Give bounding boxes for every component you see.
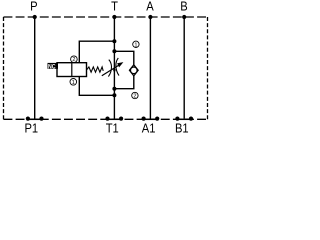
pilot valve divider — [71, 63, 73, 77]
node junction T / check bottom — [112, 87, 116, 91]
bottom port A1 solid segment + junctions — [142, 117, 160, 121]
svg-text:P: P — [30, 0, 37, 14]
wire pilot drain (pilot valve port 1 down and over to T line) — [79, 76, 114, 95]
wire B line — [183, 17, 185, 119]
svg-text:1: 1 — [72, 80, 75, 86]
svg-text:2: 2 — [133, 94, 136, 100]
wire check valve branch loop — [114, 51, 133, 88]
svg-text:A: A — [146, 0, 154, 14]
node B top junction — [182, 15, 186, 19]
bottom port P1 solid segment + junctions — [26, 117, 44, 121]
solenoid (black box with white arrow) — [48, 63, 59, 70]
pilot valve body — [57, 63, 87, 77]
check port 1 label circle — [133, 41, 139, 48]
bottom port T1 solid segment + junctions — [105, 117, 123, 121]
bottom port B1 solid segment + junctions — [175, 117, 193, 121]
check valve (diamond with ball) — [129, 65, 138, 76]
svg-text:A1: A1 — [142, 121, 156, 135]
pilot port 1 label circle — [70, 79, 77, 86]
svg-text:1: 1 — [134, 42, 137, 48]
node A top junction — [148, 15, 152, 19]
wire T line — [113, 17, 115, 119]
adjustment arrow (diagonal) — [102, 65, 120, 76]
svg-text:B: B — [180, 0, 187, 14]
wire P line — [34, 17, 36, 119]
relief valve main element: seat arcs — [108, 60, 111, 77]
node junction T / check top — [112, 49, 116, 53]
svg-text:T: T — [111, 0, 118, 14]
svg-text:B1: B1 — [175, 121, 189, 135]
pilot port 2 label circle — [71, 56, 78, 63]
wire pilot supply loop (pilot valve port 2 up and over to T line) — [79, 41, 114, 63]
svg-text:T1: T1 — [106, 121, 119, 135]
svg-text:2: 2 — [72, 57, 75, 63]
relief valve flow arrowhead (down) — [113, 69, 116, 73]
node junction T / pilot drain — [112, 93, 116, 97]
check port 2 label circle — [132, 92, 138, 99]
node P top junction — [33, 15, 37, 19]
spring — [87, 67, 103, 72]
svg-text:P1: P1 — [24, 121, 38, 135]
node T top junction — [112, 15, 116, 19]
svg-text:NC: NC — [48, 63, 56, 70]
manifold envelope (dashed border) — [4, 17, 208, 119]
wire A line — [149, 17, 151, 119]
node junction T / pilot loop — [112, 39, 116, 43]
